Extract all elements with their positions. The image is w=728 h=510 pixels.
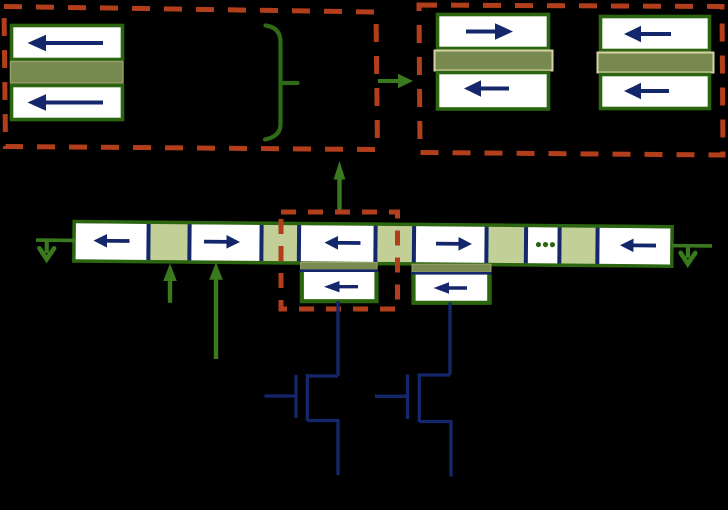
domain arrow cell11 (left) [620,238,656,252]
transistor Q1 [265,374,339,475]
spacer cell 6 [375,225,414,264]
MTJ stack S1: bottom box (arrow left) [438,73,549,110]
domain arrow cell5 (left) [324,236,360,250]
MTJ stack W1: arrow left (free) [28,94,104,110]
read MTJ R2: green border (left/right/bottom) [414,274,490,303]
spacer cell 2 [148,223,189,262]
write current arrow 2 (tall, up) [209,262,223,359]
read MTJ R2: fixed layer box fill [412,274,492,305]
read MTJ R1: arrow left [324,281,358,292]
read MTJ R1: navy top edge [300,269,379,272]
MTJ stack S1: top box (arrow right) [438,15,549,49]
MTJ stack W1: free layer box [12,86,123,120]
left terminal current arrow (down) [39,240,54,259]
dashed box: resulting states (top right) [419,5,723,155]
brace [265,26,298,140]
domain arrow cell7 (right) [436,237,472,251]
dashed box: read cell (middle) [281,212,398,309]
nanowire base [75,223,670,265]
spacer cell 10 [559,227,597,266]
transistor Q2 [375,374,451,477]
nanowire border [74,222,672,267]
MTJ stack S1: barrier bar [435,51,553,71]
read MTJ R1: fixed layer box fill [300,272,378,303]
racetrack nanowire (rotated slightly like the reference) [36,221,712,266]
dashed box: write-unit detail (top left) [4,7,378,150]
wire: R2 to Q2 drain [448,303,451,376]
MTJ stack S2: bottom box (arrow left) [601,75,710,109]
read MTJ R2: navy top edge [411,272,492,275]
right terminal wire [672,244,712,248]
spacer cell 4 [261,224,299,263]
arrow: write unit to states [378,74,413,88]
domain separators (navy) [146,222,599,265]
wire: R1 to Q1 drain [336,301,339,376]
MTJ stack W1: arrow left (pinned) [28,35,104,51]
spacer cell 8 [486,226,526,265]
read MTJ R1: barrier bar [301,263,378,270]
MTJ stack S2: top box (arrow left) [601,17,710,51]
arrow: nanowire cell up to write unit [334,161,346,210]
right terminal current arrow (down) [681,246,696,264]
read MTJ R1: green border (left/right/bottom) [302,272,377,302]
domain arrow cell3 (right) [204,235,240,249]
read MTJ R2: barrier bar [412,264,491,272]
domain arrow cell1 (left) [93,234,129,248]
read MTJ R2: arrow left [434,282,468,293]
MTJ stack W1: pinned layer box [12,26,123,60]
write current arrow 1 (short, up) [163,264,177,303]
MTJ stack W1: barrier bar [11,62,124,84]
ellipsis dots cell9 [536,242,555,247]
MTJ stack S2: barrier bar [598,53,714,73]
left terminal wire [36,238,75,242]
